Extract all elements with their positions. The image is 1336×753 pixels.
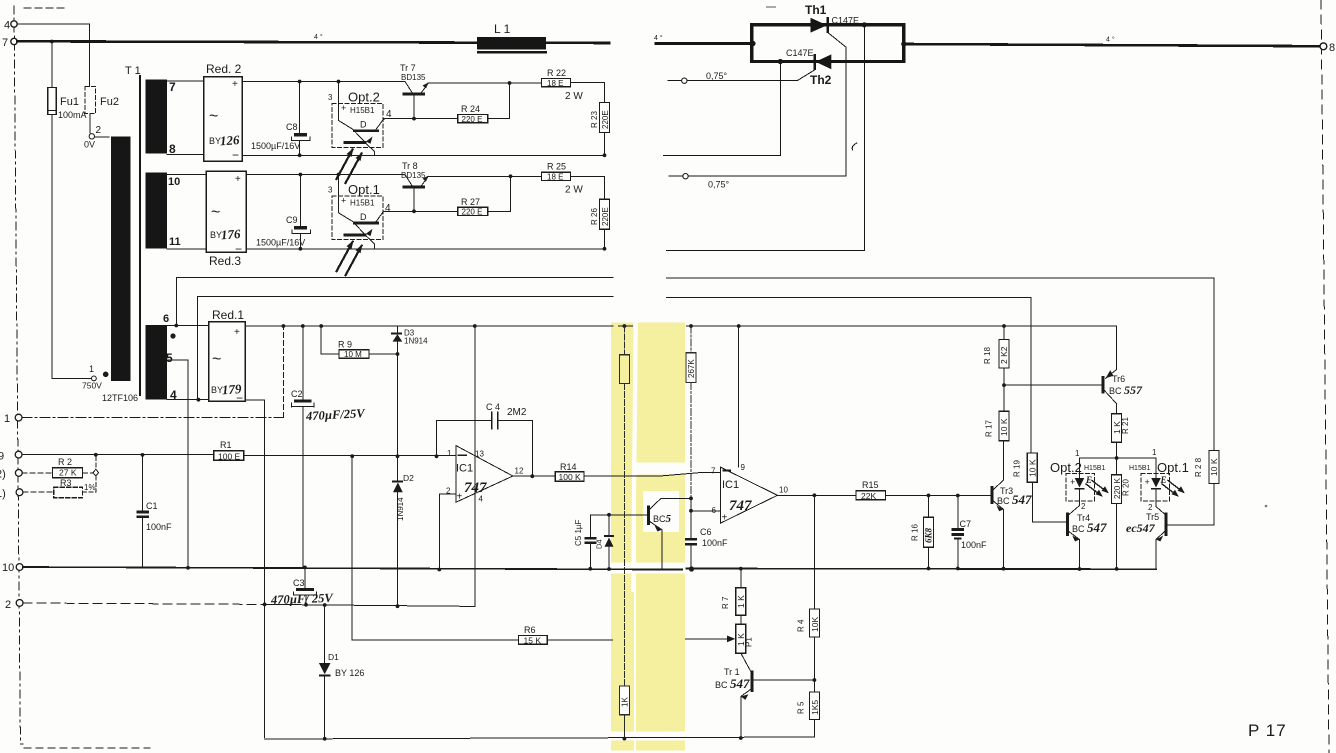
Tr6 emitter from +V rail (1106, 327, 1117, 379)
svg-text:10K: 10K (810, 617, 820, 632)
svg-text:R 7: R 7 (721, 596, 730, 609)
wire Th2 gate (687, 70, 814, 81)
wire Red.2 + rail (242, 81, 405, 83)
node C1 tap (141, 453, 145, 457)
svg-text:1: 1 (1075, 449, 1080, 458)
resistor R22 (542, 78, 571, 86)
wire pin8 to Red.2 (167, 154, 204, 156)
svg-text:+: + (232, 79, 238, 90)
transformer T1 primary bar (111, 137, 131, 382)
border top-left dashes (24, 7, 66, 9)
resistor R25 (542, 172, 571, 180)
node BC collector (689, 497, 693, 501)
wire terminal 4 to Fu2 (17, 24, 89, 87)
resistor R27 (458, 207, 488, 215)
transistor Tr7 (403, 82, 429, 121)
optocoupler Opt.2 (phototransistor) (332, 99, 385, 183)
node Opt.1 anode tap (337, 173, 341, 177)
resistor R5 (813, 680, 815, 692)
light arrows into Opt.2 (337, 150, 353, 180)
phototransistor entry (339, 191, 355, 222)
node Opt.2 anode tap (337, 80, 341, 84)
node C4 to output (530, 474, 534, 478)
LED Opt.2 (1075, 478, 1085, 488)
SEC:BOTTOM (16, 495, 1156, 740)
resistor R4 (809, 609, 819, 637)
svg-text:100nF: 100nF (961, 540, 987, 550)
svg-text:4 °: 4 ° (654, 34, 663, 42)
wire input to R1 (22, 454, 214, 456)
wire pin2 (439, 494, 456, 570)
svg-text:R 5: R 5 (797, 701, 806, 714)
svg-text:0V: 0V (84, 140, 95, 150)
svg-text:+: + (235, 174, 241, 185)
wire to R3 dashed (23, 491, 54, 493)
svg-text:4 °: 4 ° (1106, 36, 1115, 44)
svg-text:2): 2) (0, 469, 6, 481)
capacitor C1 (142, 455, 144, 510)
wire R17 to R18 node (1003, 385, 1005, 411)
resistor R6 (518, 636, 547, 645)
svg-text:100 E: 100 E (218, 451, 241, 461)
wire R9 to D3 node (369, 353, 398, 355)
svg-text:~: ~ (212, 351, 221, 368)
svg-text:10: 10 (168, 176, 180, 188)
svg-text:BD135: BD135 (401, 73, 426, 82)
rectifier Red.3 (206, 171, 246, 252)
node Fu1 tap (50, 40, 54, 44)
fuse Fu2 (dashed) (85, 87, 96, 114)
svg-text:T 1: T 1 (125, 65, 141, 77)
wire R6 riser (352, 456, 518, 640)
wire output column to R4 (813, 495, 815, 609)
svg-text:8: 8 (169, 142, 176, 156)
wire Red.3 + rail (246, 174, 405, 176)
svg-text:13: 13 (475, 450, 484, 459)
svg-text:C1: C1 (146, 501, 158, 511)
svg-text:2M2: 2M2 (507, 407, 527, 418)
svg-text:L 1: L 1 (494, 22, 511, 36)
svg-text:9: 9 (0, 451, 4, 463)
node C7 tap (956, 494, 960, 498)
light arrows out Opt.2 (1086, 484, 1101, 496)
svg-text:R 19: R 19 (1013, 460, 1022, 477)
SEC:OPAMP2 (685, 324, 991, 570)
transistor Tr5 (1165, 512, 1168, 536)
svg-text:R 22: R 22 (547, 68, 566, 78)
svg-text:D: D (360, 120, 367, 130)
node pin4 wire2 junction (197, 398, 201, 402)
svg-text:E: E (1085, 475, 1092, 485)
node R16 tap (927, 494, 931, 498)
svg-text:1 K: 1 K (1112, 421, 1122, 434)
wire R27 to riser (488, 176, 511, 211)
border right dashed (1321, 0, 1329, 753)
svg-text:Opt.1: Opt.1 (1157, 460, 1189, 475)
svg-text:+: + (234, 327, 240, 338)
node R24 riser top (508, 81, 512, 85)
resistor R18 (999, 340, 1009, 369)
wire thyristor top to Red.3- net (667, 25, 865, 251)
svg-text:6K8: 6K8 (924, 527, 934, 543)
diode D2 (392, 480, 403, 482)
resistor R3 dashed (54, 487, 83, 498)
wire pin11 to Red.3 (167, 248, 206, 250)
node thyristor left (750, 41, 755, 46)
svg-text:C147E: C147E (832, 16, 860, 26)
wire divider riser dashed (95, 457, 97, 493)
transistor Tr6 (1102, 376, 1105, 394)
capacitor C7 (957, 496, 959, 529)
svg-text:220E: 220E (601, 110, 610, 129)
wire bus to Fu1 (51, 42, 53, 88)
svg-text:1): 1) (0, 488, 6, 500)
wire V+ pin9 riser (738, 326, 740, 467)
svg-text:100mA: 100mA (58, 110, 87, 120)
wire +V rail (Red.1 +) (245, 325, 1117, 327)
node C3 bottom (304, 603, 308, 607)
resistor R21 (1112, 414, 1122, 442)
svg-text:R 24: R 24 (461, 104, 480, 114)
svg-text:0,75°: 0,75° (706, 71, 728, 81)
transistor Tr3 (991, 486, 994, 504)
svg-text:P 17: P 17 (1248, 721, 1287, 740)
svg-text:22K: 22K (861, 491, 876, 501)
capacitor C5 (589, 515, 591, 537)
svg-text:220 E: 220 E (462, 115, 483, 124)
svg-text:R 27: R 27 (461, 197, 480, 207)
potentiometer P1 (736, 624, 746, 653)
svg-text:10 M: 10 M (344, 350, 362, 359)
node R16 ground (927, 567, 931, 571)
svg-text:R 16: R 16 (911, 524, 920, 541)
node C7 ground (956, 567, 960, 571)
svg-text:2 K2: 2 K2 (999, 346, 1009, 364)
squiggle mark (852, 143, 857, 150)
wire R9 left (321, 326, 339, 354)
wire net2 dashed (23, 603, 265, 604)
emitter exit (367, 144, 375, 155)
speck (1265, 505, 1268, 508)
svg-text:R 21: R 21 (1121, 417, 1130, 434)
border bottom dashes (24, 747, 150, 749)
wire R25 to R26 (571, 175, 605, 177)
node thyristor top (862, 22, 867, 27)
svg-text:470µF/ 25V: 470µF/ 25V (270, 591, 335, 607)
svg-text:9: 9 (741, 463, 746, 472)
svg-text:Red.3: Red.3 (209, 254, 241, 268)
resistor R19 (1027, 453, 1037, 482)
resistor 1K lower (619, 686, 629, 715)
svg-text:C 4: C 4 (486, 402, 500, 412)
SEC:LONGWIRES (176, 278, 1214, 454)
node V+ tap (473, 324, 477, 328)
svg-text:10: 10 (779, 486, 788, 495)
node C6 ground (689, 567, 693, 571)
wire ground bus right (687, 568, 1157, 571)
slant bar1 to bar 2 (356, 225, 365, 234)
wire bottom rail (265, 737, 815, 739)
resistor R2 (53, 468, 83, 478)
resistor R1 (214, 451, 244, 461)
wire Tr5 base to R28 (1167, 484, 1214, 525)
svg-text:−: − (236, 391, 243, 405)
resistor R9 (339, 350, 369, 359)
node D1 top (323, 603, 327, 607)
op-amp IC1a triangle (456, 446, 513, 503)
svg-text:4 °: 4 ° (314, 33, 323, 41)
wire pin10 to Red.3 (167, 174, 206, 176)
wire divider column upper (623, 326, 625, 355)
transistor Tr1 (741, 653, 751, 671)
optocoupler Opt.1 LED box (1141, 474, 1170, 502)
wire R24 to riser (488, 83, 510, 119)
node D4 tap (607, 513, 611, 517)
svg-text:15 K: 15 K (524, 636, 542, 646)
resistor R15 (856, 491, 886, 500)
highlighter band A (611, 323, 634, 751)
node Tr8 base / R27 (412, 209, 416, 213)
emitter arrow mark (366, 229, 373, 236)
wire R6 left segment end (547, 639, 612, 641)
node Tr4 emitter ground (1078, 567, 1082, 571)
svg-text:R 17: R 17 (985, 420, 994, 437)
svg-text:Th1: Th1 (805, 3, 827, 17)
terminal 9 (15, 451, 22, 458)
svg-text:−: − (235, 242, 242, 256)
emitter arrow mark (366, 137, 373, 144)
svg-text:C147E: C147E (786, 48, 814, 58)
SEC:THYRISTOR (664, 17, 907, 250)
LED Opt.1 (1151, 478, 1161, 488)
thyristor Th1 (811, 18, 828, 33)
terminal 2 (16, 600, 23, 607)
node thyristor bottom (778, 59, 783, 64)
svg-text:Th2: Th2 (810, 73, 832, 87)
fuse Fu1 (48, 88, 56, 115)
wire R22 to R23 (571, 82, 605, 84)
node divider bottom (623, 737, 627, 741)
wire R15 to Tr3 (886, 494, 991, 496)
svg-text:Red. 2: Red. 2 (206, 62, 242, 76)
svg-text:C7: C7 (960, 519, 972, 529)
terminal 4 (11, 21, 17, 27)
node net2 Red1- (263, 603, 267, 607)
optocoupler Opt.2 LED box (1066, 474, 1095, 502)
svg-text:R 20: R 20 (1122, 479, 1131, 496)
svg-text:18 E: 18 E (547, 173, 563, 182)
svg-text:Opt.2: Opt.2 (348, 90, 380, 105)
svg-text:1K: 1K (621, 697, 630, 707)
wire net 1 dash-dot (22, 417, 283, 419)
svg-text:3: 3 (328, 186, 333, 195)
svg-text:BY 126: BY 126 (335, 668, 364, 678)
svg-text:12TF106: 12TF106 (102, 393, 138, 403)
svg-text:R 18: R 18 (983, 347, 992, 364)
terminal 1 (15, 414, 22, 421)
highlighter white patch around transistor (643, 491, 679, 532)
wire Opt.2 pin4 to R24 (384, 118, 458, 120)
svg-text:10 K: 10 K (1209, 458, 1219, 476)
resistor R16 (928, 495, 930, 517)
node R27 riser top (509, 174, 513, 178)
svg-text:220E: 220E (601, 207, 610, 226)
svg-text:Opt.1: Opt.1 (348, 182, 380, 197)
wire main bus left (17, 41, 609, 43)
svg-text:R 2 8: R 2 8 (1194, 457, 1203, 477)
node R26 bottom (603, 247, 607, 251)
transformer secondary bar (Red.2) (146, 80, 168, 154)
border left dash-dot (14, 6, 23, 744)
pin7 minus bar (724, 470, 731, 472)
svg-text:6: 6 (163, 313, 169, 325)
svg-text:8: 8 (1329, 42, 1335, 54)
svg-text:100nF: 100nF (702, 538, 728, 548)
pin1 minus bar (459, 454, 467, 456)
wire R14 to IC1b pin7 (584, 473, 720, 477)
winding dot Red.1 (170, 333, 175, 338)
diode D1 (324, 605, 326, 663)
stray mark top (766, 6, 776, 8)
node D2 (396, 454, 400, 458)
svg-text:100nF: 100nF (146, 522, 172, 532)
svg-text:11: 11 (169, 236, 181, 248)
svg-text:BC 557: BC 557 (1109, 383, 1143, 397)
thyristor block frame (752, 25, 904, 62)
svg-text:747: 747 (464, 480, 487, 496)
svg-text:−: − (232, 148, 239, 162)
svg-text:+: + (722, 513, 728, 524)
wire ground bus left (23, 567, 682, 570)
svg-text:4: 4 (4, 20, 10, 32)
svg-text:6: 6 (712, 506, 717, 515)
node pin9 tap (737, 324, 741, 328)
wire R2 to diamond dashed (83, 472, 94, 474)
svg-text:R6: R6 (524, 625, 536, 635)
capacitor C8 (299, 82, 301, 134)
capacitor C9 (299, 175, 301, 227)
svg-text:1K5: 1K5 (810, 700, 820, 715)
wire R19 to Tr4 base (1032, 482, 1066, 522)
node pin5 bus (186, 566, 190, 570)
svg-text:2: 2 (1081, 502, 1086, 511)
diode D4 (608, 515, 610, 535)
transformer secondary bar (Red.3) (146, 173, 168, 249)
wire base node to Tr6 (1004, 384, 1102, 386)
svg-text:10 K: 10 K (999, 418, 1009, 436)
wire pin4 to Red.1 (167, 399, 209, 401)
node R23 bottom (603, 153, 607, 157)
svg-text:~: ~ (211, 204, 220, 221)
svg-text:R3: R3 (60, 478, 72, 488)
diode D3 (397, 326, 399, 332)
terminal 2 (0V) (89, 134, 94, 139)
resistor R7 (740, 569, 742, 588)
svg-text:H15B1: H15B1 (350, 199, 375, 208)
node R20 ground (1115, 567, 1119, 571)
svg-text:27 K: 27 K (59, 468, 77, 478)
svg-text:~: ~ (209, 108, 218, 125)
base bar 2 (344, 141, 367, 144)
node C5 ground (588, 567, 592, 571)
svg-text:267K: 267K (687, 359, 696, 378)
resistor divider upper (unlabeled) (619, 355, 629, 384)
wire net2 solid (265, 604, 475, 606)
wire Fu2 to terminal 2 (89, 114, 91, 134)
svg-text:R 26: R 26 (590, 208, 599, 225)
terminal 0,75 upper (682, 78, 687, 83)
svg-text:IC1: IC1 (456, 463, 473, 475)
svg-text:D2: D2 (403, 473, 414, 483)
wire Tr1 base to node (753, 679, 814, 681)
node C8 bottom (298, 153, 302, 157)
svg-text:7: 7 (2, 37, 8, 49)
svg-text:2: 2 (5, 599, 11, 611)
wire IC1b output (777, 494, 856, 496)
svg-text:1 K: 1 K (736, 595, 746, 608)
resistor R14 (555, 472, 584, 481)
svg-text:1: 1 (89, 364, 94, 374)
terminal pin 1 circle (92, 376, 97, 381)
svg-text:+: + (1145, 477, 1150, 487)
node D4 ground (607, 567, 611, 571)
svg-text:10 K: 10 K (1028, 459, 1038, 477)
svg-text:220 E: 220 E (462, 208, 483, 217)
phototransistor base bar 1 (353, 222, 379, 225)
wire output to R14 (513, 475, 556, 477)
node R18 top on +V rail (1002, 324, 1006, 328)
node Tr1 emitter bottom (739, 736, 743, 740)
node D3 R9 (396, 352, 400, 356)
wire Red.1 minus down (245, 400, 265, 737)
svg-text:D4: D4 (595, 539, 604, 549)
transformer secondary bar (Red.1) (146, 325, 168, 400)
svg-text:7: 7 (711, 467, 716, 476)
node D2 bottom on net2 (396, 604, 400, 608)
wire pin5 input (691, 510, 720, 512)
node pin6 riser (174, 324, 178, 328)
terminal (1 (16, 489, 23, 496)
wire Tr8 to R25 (428, 175, 542, 177)
svg-text:10: 10 (2, 562, 14, 574)
transistor Tr4 (1066, 512, 1069, 536)
wire D3 node to D2 (397, 354, 399, 480)
node V- feed tap (689, 324, 693, 328)
svg-text:2 W: 2 W (565, 185, 583, 196)
node C9 bottom (299, 247, 303, 251)
wire net A right part to R28 (667, 278, 1214, 450)
svg-text:BC5: BC5 (653, 513, 672, 525)
node C4 feedback (435, 454, 439, 458)
node diamond (93, 469, 99, 476)
svg-text:2 W: 2 W (565, 91, 583, 102)
wire pin5 down to bus (167, 360, 188, 568)
svg-text:Opt.2: Opt.2 (1050, 460, 1082, 475)
optocoupler Opt.1 (phototransistor) (332, 191, 385, 275)
node R2 divider tap (94, 453, 98, 457)
svg-text:176: 176 (220, 226, 241, 242)
svg-text:R15: R15 (862, 480, 879, 490)
svg-text:18 E: 18 E (547, 79, 563, 88)
node R4/R5/base/output (813, 678, 817, 682)
node D1 bottom (323, 737, 327, 741)
svg-text:747: 747 (729, 498, 752, 514)
wire divider column middle (623, 384, 625, 687)
svg-text:C9: C9 (286, 215, 298, 225)
wire V+ / V- column through IC1a (474, 326, 476, 606)
node Tr3 emitter ground (1002, 567, 1006, 571)
svg-text:+: + (341, 103, 346, 113)
